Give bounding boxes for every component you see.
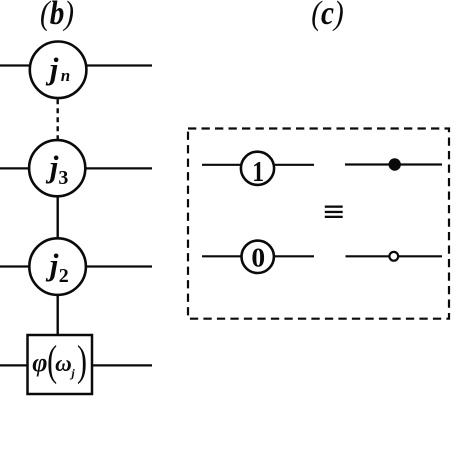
svg-text:ω: ω — [55, 351, 72, 376]
svg-text:): ) — [77, 338, 87, 386]
svg-text:1: 1 — [252, 155, 264, 188]
svg-text:3: 3 — [58, 167, 68, 189]
svg-text:0: 0 — [251, 241, 265, 272]
svg-text:(c): (c) — [311, 0, 343, 32]
svg-text:2: 2 — [59, 265, 69, 287]
svg-text:n: n — [61, 66, 70, 85]
svg-text:(b): (b) — [40, 0, 74, 32]
svg-text:φ: φ — [32, 348, 47, 377]
